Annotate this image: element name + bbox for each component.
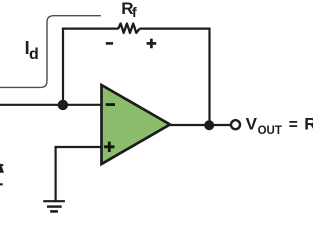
node: output junction [204,120,214,130]
wire: feedback left vertical [62,29,64,105]
node: inverting input junction [58,100,68,110]
op-amp non-inverting input label plus [104,142,114,152]
photodiode fragment: arrow tip at left edge [0,164,4,173]
current path indicator Id (thin gray line) [0,16,101,88]
wire: feedback top horizontal right of Rf [140,28,210,30]
op-amp inverting input label minus [106,103,115,106]
wire: output [168,124,230,126]
polarity label plus (under Rf right) [147,39,157,49]
output terminal (open circle) [231,120,240,129]
svg-text:d: d [29,46,39,63]
op-amp U1 [102,85,171,164]
svg-text:OUT: OUT [258,125,282,137]
wire: inverting input from photodiode [0,104,103,106]
wire: non-inverting input horizontal [55,146,102,148]
wire: feedback top horizontal left of Rf [62,28,119,30]
wire: ground vertical [54,146,56,201]
svg-text:V: V [246,115,258,134]
svg-text:=: = [289,117,298,134]
polarity label minus (under Rf left) [106,42,113,45]
resistor Rf [118,24,139,33]
ground [43,201,65,211]
svg-text:f: f [132,4,137,20]
photodiode fragment: dash at left edge [0,183,3,185]
wire: feedback right vertical [208,28,210,126]
svg-text:R: R [304,115,313,134]
